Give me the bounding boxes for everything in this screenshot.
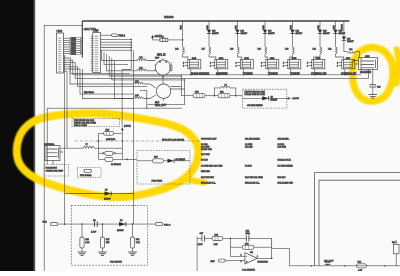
svg-text:D4 USE RE1 220 OHM: D4 USE RE1 220 OHM: [201, 165, 223, 167]
svg-text:PAD19: PAD19: [341, 23, 344, 31]
inductor L14: [134, 81, 156, 88]
diode D5 1N4007: [104, 189, 111, 200]
parts list table: [201, 138, 293, 185]
svg-text:4.7uF: 4.7uF: [91, 231, 97, 233]
wire harness from CN4 lower pins: [47, 56, 182, 194]
svg-text:2: 2: [354, 60, 355, 62]
diode D6 1N4007: [117, 220, 126, 232]
svg-text:4: 4: [166, 62, 167, 64]
resistor R28: [128, 224, 140, 255]
svg-text:PAD100: PAD100: [164, 15, 174, 19]
jack SW6: [307, 58, 327, 76]
wire: right block outer border: [315, 173, 400, 266]
wire bottom bus: [289, 265, 400, 267]
svg-text:1: 1: [307, 65, 308, 67]
svg-text:1N4007: 1N4007: [212, 33, 219, 35]
wire channel drop x=182.6: [182, 21, 184, 47]
svg-text:D4 USE BMXNB: D4 USE BMXNB: [278, 165, 294, 167]
fuse F1: [160, 37, 184, 42]
resistor R39: [230, 238, 271, 258]
jack SW8 (highlighted): [354, 56, 378, 74]
svg-text:1N4007: 1N4007: [268, 33, 275, 35]
svg-text:IC4: IC4: [250, 252, 253, 254]
resistor R29: [99, 130, 123, 149]
svg-text:PAD: PAD: [317, 25, 320, 30]
svg-text:1S 1N4148: 1S 1N4148: [111, 164, 122, 166]
jack HH-PEDAL: [44, 143, 63, 161]
svg-text:R27: R27: [106, 239, 109, 241]
svg-text:2: 2: [241, 254, 242, 256]
diode D13: [263, 30, 267, 34]
node PAD-1 plug and CN5 right wires: [101, 34, 134, 194]
svg-text:2: 2: [337, 62, 338, 64]
wire channel drop x=335.5: [335, 21, 337, 47]
inductor L15: [134, 95, 156, 99]
option dashed box (FOR XXXX big): [122, 151, 190, 185]
svg-text:PAD: PAD: [289, 25, 292, 30]
diode D10: [207, 30, 211, 34]
option dashed box (FOR D8RG1): [78, 168, 102, 178]
node labels PAD stack (CN4 to VCC): [66, 37, 84, 55]
diode D18: [342, 37, 346, 41]
jack SW2: [210, 58, 228, 76]
svg-text:PAD-1: PAD-1: [119, 34, 126, 37]
diode D14: [290, 30, 294, 34]
svg-text:2: 2: [183, 62, 184, 64]
svg-text:1: 1: [283, 65, 284, 67]
svg-text:FOR KD7G5: FOR KD7G5: [110, 261, 123, 263]
svg-text:R24 USE 220 OHM: R24 USE 220 OHM: [245, 177, 263, 179]
capacitor C17: [197, 233, 212, 246]
svg-text:BUF: BUF: [155, 102, 160, 104]
highlighter oval tail (bottom right): [184, 179, 205, 183]
diode D16: [333, 30, 337, 34]
power arrow +13.5V (top): [151, 35, 162, 40]
wire: option box corner left: [47, 108, 182, 164]
svg-text:RFA,RJ,RB USE: RFA,RJ,RB USE: [278, 182, 294, 185]
jack SW4: [261, 58, 279, 76]
svg-text:PAD: PAD: [43, 221, 48, 224]
svg-text:CN4: CN4: [57, 29, 63, 33]
jack SW5: [283, 58, 301, 76]
svg-text:1: 1: [210, 65, 211, 67]
svg-text:REF: REF: [211, 261, 216, 263]
jack SW3: [236, 58, 254, 76]
wire: VCC vertical with taps: [81, 21, 83, 58]
svg-text:PAD-3: PAD-3: [164, 223, 171, 226]
svg-text:PAD: PAD: [332, 25, 335, 30]
resistor R44: [357, 262, 367, 272]
svg-text:CN5: CN5: [93, 29, 99, 33]
option dashed box (FOR KD7G5 bottom): [71, 206, 147, 266]
svg-text:L7A R11: L7A R11: [245, 146, 254, 149]
resistor R30: [193, 92, 205, 98]
diode D8 1N4148: [242, 97, 287, 99]
wire: lower midi links: [140, 90, 147, 108]
svg-text:D5 DB USB: D5 DB USB: [201, 149, 212, 151]
power arrow +13.5V (mid right): [287, 97, 290, 99]
svg-text:1: 1: [236, 65, 237, 67]
svg-text:R24 N.U: R24 N.U: [278, 177, 286, 179]
highlighter small ring (top right): [353, 48, 393, 102]
svg-text:D8RG2 USE 100 OHM: D8RG2 USE 100 OHM: [245, 94, 266, 96]
power arrow (+13.5): [121, 70, 131, 142]
wire: top-left horizontal to VCC line: [44, 24, 82, 26]
ground (R28): [128, 252, 137, 256]
svg-text:D5: D5: [105, 189, 107, 191]
svg-text:L7A USE: L7A USE: [278, 146, 287, 149]
wire channel drop x=292.5: [292, 21, 294, 47]
buffer U-MIDI_OUT: [155, 75, 171, 107]
wire channel drop x=320: [319, 21, 321, 47]
svg-text:1N4007: 1N4007: [117, 230, 124, 232]
ground (R27): [98, 252, 107, 256]
node PAD-7 plug: [43, 221, 156, 226]
diode D12: [235, 30, 239, 34]
svg-text:HH-PEDAL: HH-PEDAL: [84, 91, 95, 94]
svg-text:SW1TCH: SW1TCH: [106, 139, 116, 141]
svg-text:MIDI_OUT: MIDI_OUT: [155, 105, 167, 107]
svg-text:1: 1: [257, 256, 258, 258]
diode D3 1N4148: [168, 159, 174, 163]
svg-text:2: 2: [160, 62, 161, 64]
svg-text:R46: R46: [392, 242, 395, 244]
buffer U-MIDI_IN: [155, 55, 172, 77]
inductor L7: [63, 144, 122, 148]
wires: MIDI_OUT to right: [171, 87, 185, 90]
svg-text:1N4007: 1N4007: [323, 33, 330, 35]
option dashed box (mid): [242, 89, 287, 108]
svg-text:OTHER USE JUMP: OTHER USE JUMP: [46, 171, 64, 173]
capacitor C22: [246, 231, 272, 242]
svg-text:4.7uF: 4.7uF: [198, 244, 204, 246]
svg-text:C24: C24: [377, 86, 380, 88]
wire channel drop x=237.5: [237, 21, 239, 47]
svg-text:(+13.5): (+13.5): [124, 126, 131, 128]
resistor R26: [78, 224, 90, 255]
wire row y=95.7: [181, 95, 193, 97]
jack SW7: [337, 58, 357, 76]
svg-text:L3A USE: L3A USE: [201, 146, 210, 149]
svg-text:2: 2: [261, 62, 262, 64]
svg-text:2: 2: [210, 62, 211, 64]
ground (R26): [78, 252, 87, 256]
svg-text:1N4007: 1N4007: [104, 198, 111, 200]
svg-text:PAD: PAD: [234, 25, 237, 30]
wire: jack ground bus B: [75, 70, 368, 79]
switch select dash-dot line: [75, 140, 200, 142]
svg-text:FOR XXXX: FOR XXXX: [152, 181, 163, 183]
svg-text:PAD: PAD: [262, 25, 265, 30]
wire channel drop x=209: [208, 21, 210, 47]
highlighter ring tail arc: [397, 49, 399, 84]
svg-text:1: 1: [183, 65, 184, 67]
svg-text:2: 2: [283, 62, 284, 64]
svg-text:1.5K: 1.5K: [214, 244, 219, 246]
svg-text:4X2 MODEL: 4X2 MODEL: [278, 139, 290, 141]
wire channel 8 drop: [343, 21, 345, 36]
wire cascade to MIDI buffers: [102, 50, 185, 98]
option dashed box (KD7G5 CH1 PAD): [72, 119, 120, 128]
resistor R46 (right edge): [392, 240, 399, 266]
svg-text:4J2 USE BMXNB: 4J2 USE BMXNB: [247, 105, 263, 107]
resistor R27: [98, 224, 110, 255]
svg-text:FOR KD8G5: FOR KD8G5: [46, 168, 58, 170]
jack SW1: [183, 58, 210, 76]
svg-text:DB-4X2 MODEL: DB-4X2 MODEL: [245, 139, 261, 141]
svg-text:USE 4-2 OHM: USE 4-2 OHM: [74, 125, 87, 127]
capacitor C9: [91, 220, 99, 233]
wire: left frame vertical: [43, 25, 45, 271]
svg-text:2: 2: [236, 62, 237, 64]
svg-text:R28: R28: [136, 239, 139, 241]
inductor L13: [137, 68, 156, 71]
op-amp IC4 NJM4558M: [225, 252, 268, 264]
node PAD-3 plug (right): [156, 223, 172, 227]
wire: top power bus: [82, 20, 349, 22]
highlighter big oval: [17, 113, 199, 197]
resistor R33: [99, 141, 123, 159]
svg-text:3: 3: [241, 261, 242, 263]
resistor R36: [212, 234, 246, 245]
ground (jack8): [369, 95, 377, 99]
scanner black margin bar: [0, 0, 34, 271]
capacitor C28: [324, 260, 334, 265]
svg-text:PAD9: PAD9: [71, 52, 76, 55]
inductor L12: [137, 57, 156, 60]
node REF plug: [211, 259, 226, 263]
resistor R31: [218, 92, 230, 98]
svg-text:HI-HAT/9: HI-HAT/9: [360, 70, 371, 74]
svg-text:MIDI_IN: MIDI_IN: [157, 55, 166, 57]
svg-text:+13.5V: +13.5V: [292, 98, 300, 100]
option dashed box (FOR KD8G5): [44, 165, 69, 177]
svg-text:PAD: PAD: [206, 25, 209, 30]
svg-text:BUF: BUF: [155, 58, 160, 60]
svg-text:D4,R3,C4 N.U.: D4,R3,C4 N.U.: [278, 159, 292, 161]
svg-text:1N4007: 1N4007: [241, 33, 248, 35]
wire jack8 to ground: [372, 70, 374, 85]
wire HH jack down: [52, 161, 54, 165]
wire vertical joins: [65, 194, 134, 225]
svg-text:2: 2: [307, 62, 308, 64]
wire: jack ground bus A: [73, 74, 361, 76]
svg-text:1: 1: [337, 65, 338, 67]
svg-text:PAD: PAD: [179, 25, 182, 30]
capacitor C24: [370, 85, 377, 87]
svg-text:1N4148: 1N4148: [271, 99, 278, 101]
wire left drop: [196, 237, 198, 272]
svg-text:R24 USE 56K: R24 USE 56K: [201, 177, 214, 179]
svg-text:1N4007: 1N4007: [347, 41, 354, 43]
resistor R34: [99, 157, 123, 166]
svg-text:1: 1: [261, 65, 262, 67]
svg-text:D3 N.U: D3 N.U: [201, 159, 208, 161]
svg-text:FOR D8RG1: FOR D8RG1: [80, 175, 92, 177]
svg-text:WT34 FOR 4J2 MODEL: WT34 FOR 4J2 MODEL: [162, 139, 185, 141]
svg-text:D6: D6: [120, 220, 122, 222]
wire to lower diode row: [65, 193, 134, 195]
svg-text:RFA,RJ,RB N.L.: RFA,RJ,RB N.L.: [201, 182, 216, 185]
svg-text:NJM4558M: NJM4558M: [258, 261, 269, 263]
svg-text:V600 PART LIST: V600 PART LIST: [201, 138, 217, 141]
svg-text:R26: R26: [85, 239, 88, 241]
svg-text:D4 N.U: D4 N.U: [245, 165, 252, 167]
wire op-amp output to bottom bus: [257, 238, 289, 265]
diode D15: [318, 30, 322, 34]
inductor L9 (parallel): [214, 84, 236, 95]
svg-text:R5W UNI: R5W UNI: [201, 171, 210, 173]
svg-text:C1? USE: C1? USE: [201, 154, 210, 156]
wire channel drop x=265: [264, 21, 266, 47]
connector CN5: [91, 29, 101, 73]
svg-text:RFA,RJ,RB N.L.: RFA,RJ,RB N.L.: [245, 182, 260, 185]
svg-text:1N4007: 1N4007: [296, 33, 303, 35]
connector CN4: [57, 29, 66, 73]
wire: right block inner border: [319, 180, 400, 266]
